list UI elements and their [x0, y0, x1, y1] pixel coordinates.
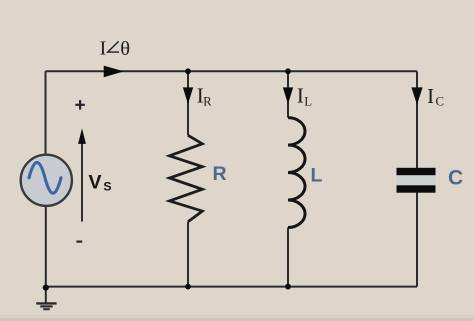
svg-text:L: L: [311, 164, 323, 186]
svg-text:I: I: [297, 84, 304, 108]
svg-text:θ: θ: [120, 38, 130, 60]
svg-text:R: R: [203, 95, 212, 109]
svg-text:V: V: [89, 171, 102, 193]
svg-text:C: C: [436, 95, 445, 109]
svg-text:C: C: [448, 166, 463, 189]
svg-text:I: I: [427, 84, 434, 108]
svg-text:S: S: [103, 180, 111, 194]
svg-text:R: R: [213, 163, 227, 185]
svg-text:I: I: [100, 38, 107, 60]
svg-text:L: L: [304, 95, 312, 109]
